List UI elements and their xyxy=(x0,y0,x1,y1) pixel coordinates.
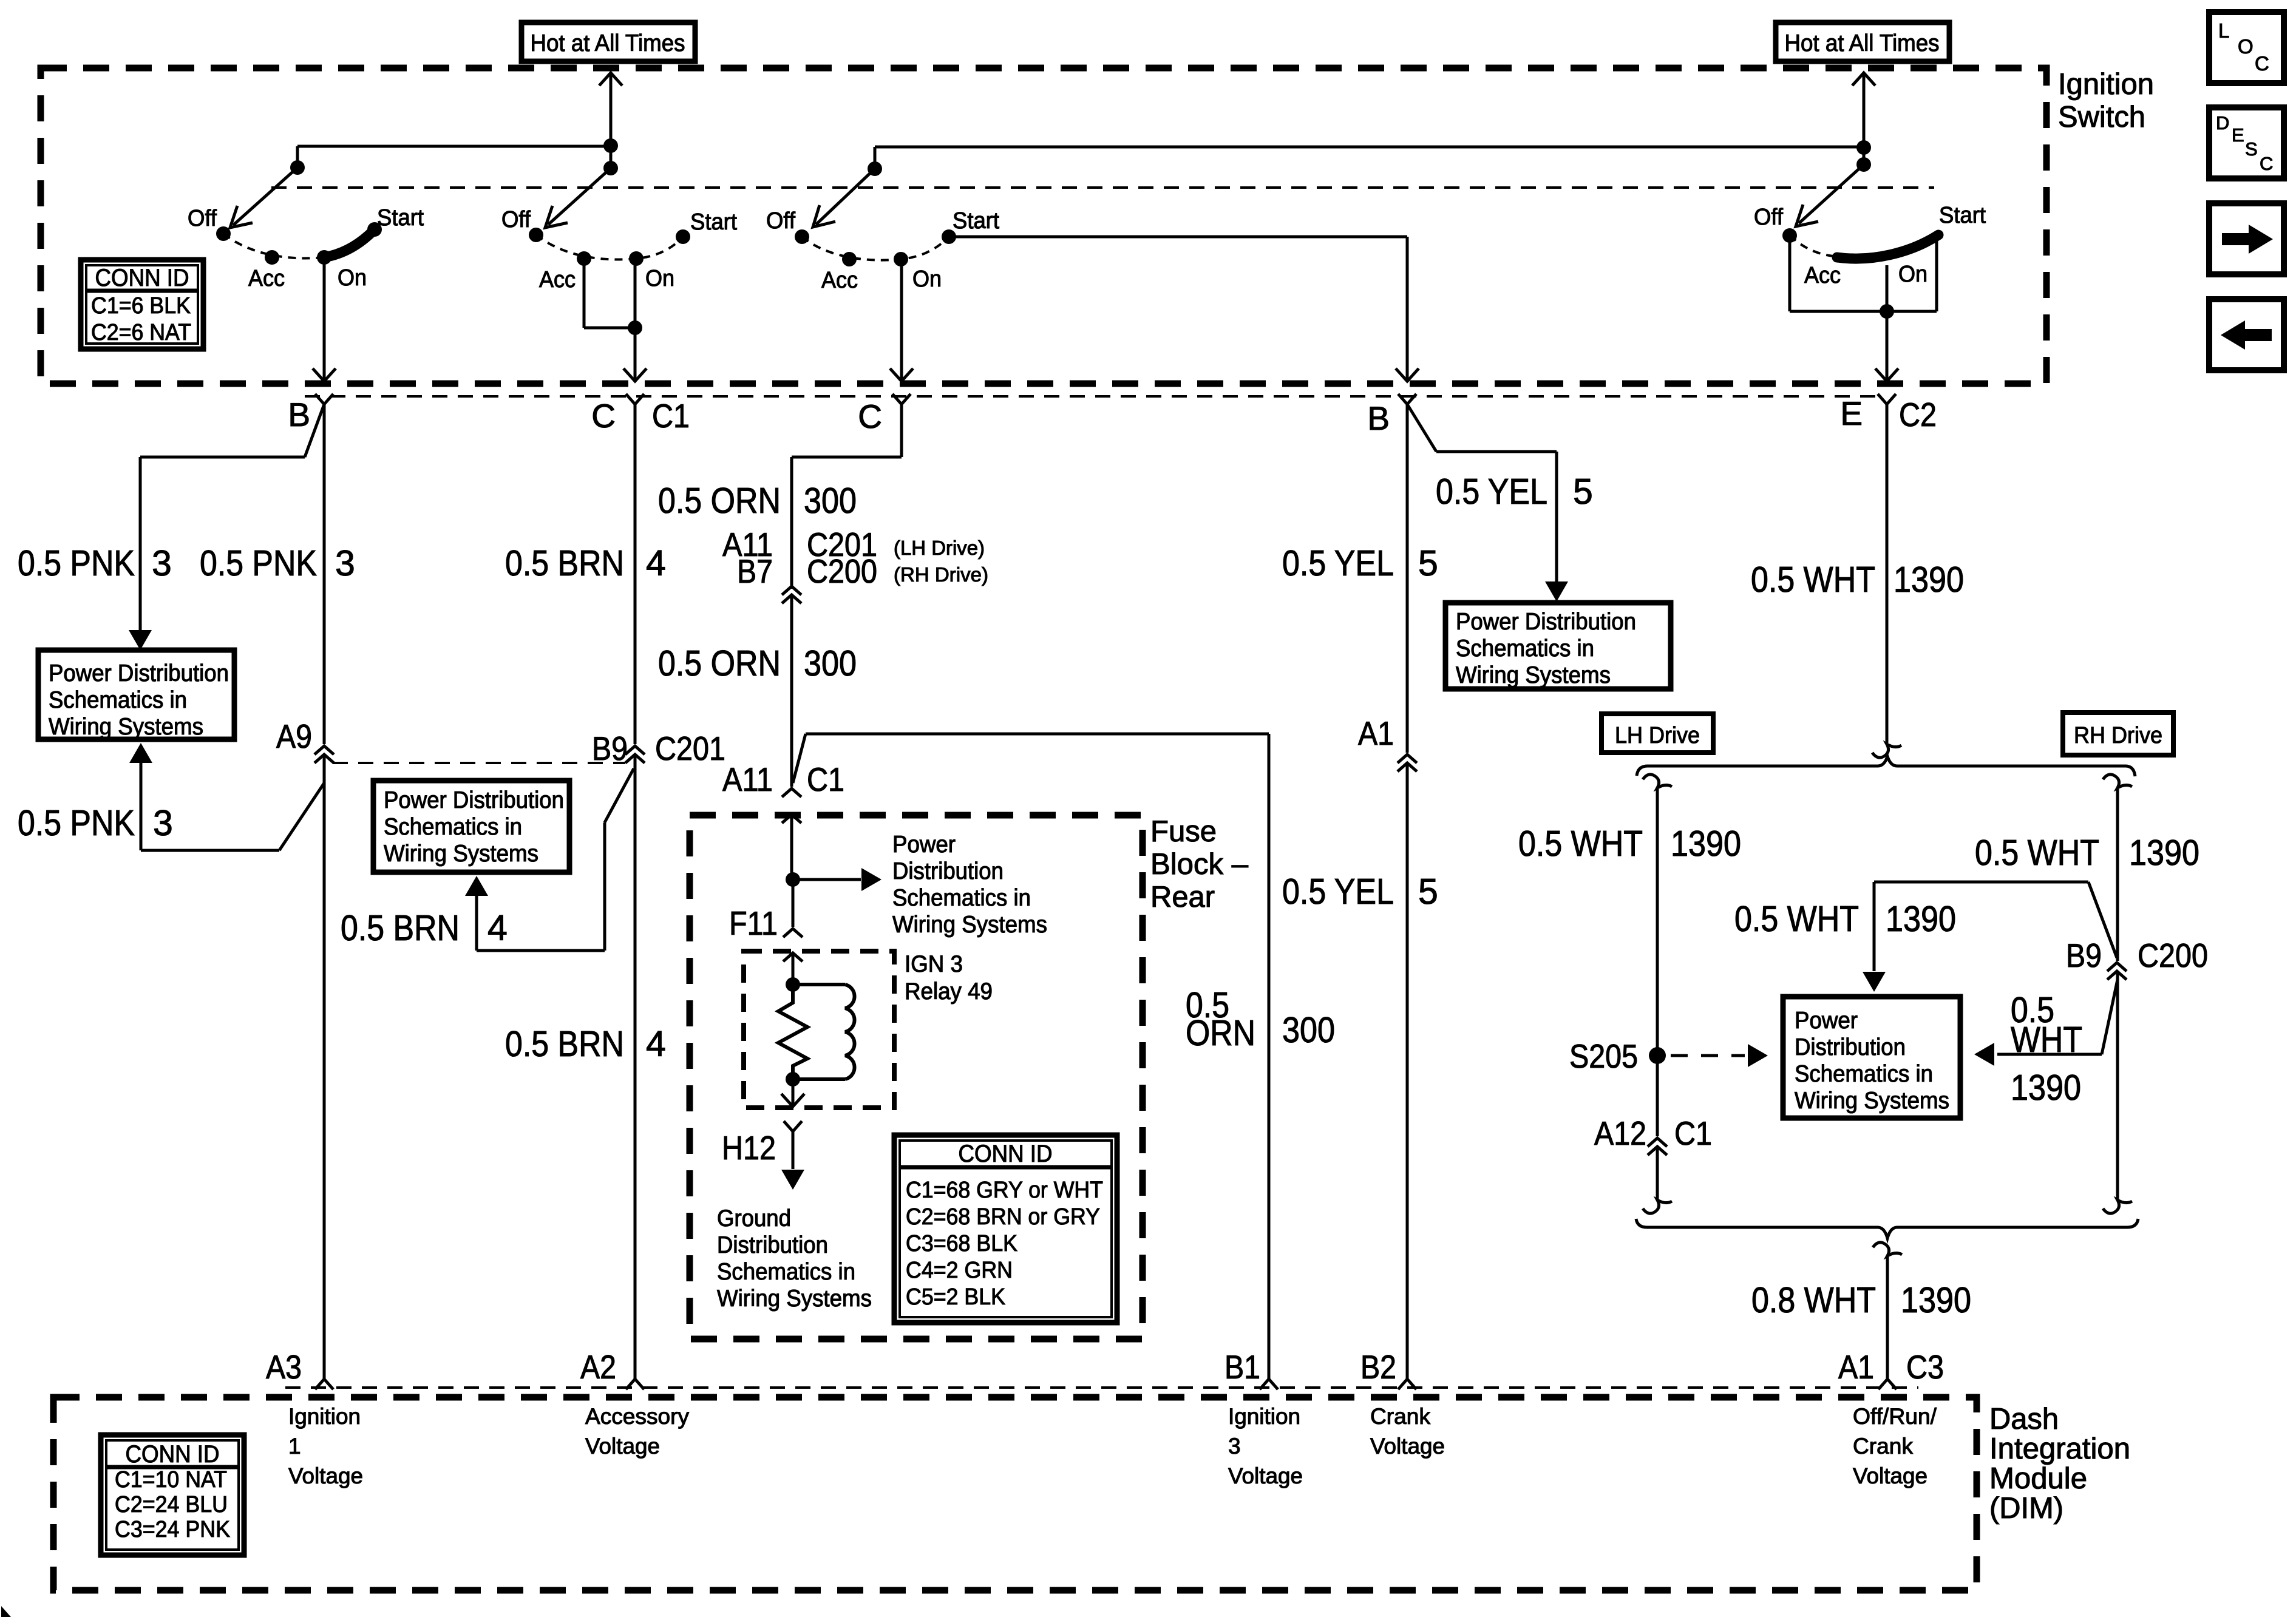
svg-text:300: 300 xyxy=(1282,1010,1335,1050)
svg-text:CONN ID: CONN ID xyxy=(959,1141,1053,1167)
svg-text:Schematics in: Schematics in xyxy=(384,814,522,840)
svg-text:C2=24 BLU: C2=24 BLU xyxy=(115,1492,228,1517)
connector pin B of ignition switch xyxy=(288,394,333,433)
connector F11 xyxy=(729,880,803,942)
switch 2 position arc xyxy=(536,235,683,259)
switch 4 arm with arrow to Off xyxy=(1796,164,1864,226)
svg-text:Off: Off xyxy=(766,208,795,234)
svg-text:Schematics in: Schematics in xyxy=(1795,1061,1933,1087)
svg-text:0.5 PNK: 0.5 PNK xyxy=(200,543,317,583)
branch to ignition3 voltage B1 xyxy=(793,734,1269,1379)
svg-text:0.5 BRN: 0.5 BRN xyxy=(341,908,460,948)
svg-text:Acc: Acc xyxy=(821,268,858,293)
switch 4 contact links xyxy=(1790,235,1937,311)
svg-text:C3: C3 xyxy=(1906,1348,1944,1386)
svg-text:C: C xyxy=(858,398,882,435)
pin A1/C3 function label xyxy=(1853,1404,1937,1488)
svg-text:Distribution: Distribution xyxy=(892,858,1004,884)
wire to A11/C1 xyxy=(790,595,793,787)
connector A12/C1 xyxy=(1594,1114,1712,1155)
svg-text:Dash: Dash xyxy=(1989,1403,2059,1436)
svg-text:Wiring Systems: Wiring Systems xyxy=(892,912,1047,938)
switch 3 position arc xyxy=(802,237,949,260)
svg-text:C200: C200 xyxy=(807,552,877,590)
switch 4 Off contact xyxy=(1782,228,1797,243)
svg-text:ORN: ORN xyxy=(1186,1013,1255,1053)
dash integration module dashed box xyxy=(53,1397,1977,1590)
svg-text:A11: A11 xyxy=(722,761,773,798)
svg-text:C: C xyxy=(2260,153,2273,174)
svg-text:C1: C1 xyxy=(807,761,844,798)
switch 1 output wire B xyxy=(313,257,336,381)
connector pin C/C1 xyxy=(591,394,690,435)
switch 3 Acc contact xyxy=(842,252,857,266)
svg-text:Fuse: Fuse xyxy=(1150,815,1217,848)
RH Drive box xyxy=(2063,713,2173,755)
svg-text:Wiring Systems: Wiring Systems xyxy=(49,714,203,740)
svg-text:Integration: Integration xyxy=(1989,1432,2130,1465)
DIM label xyxy=(1989,1403,2130,1525)
branch arrow to power distribution note xyxy=(793,868,881,891)
svg-text:A3: A3 xyxy=(266,1348,302,1386)
connector C201 dashed line xyxy=(333,762,625,764)
svg-text:Wiring Systems: Wiring Systems xyxy=(1795,1088,1949,1114)
svg-text:3: 3 xyxy=(1228,1434,1241,1459)
Hot at All Times box (right) xyxy=(1776,22,1949,61)
svg-text:C1=6 BLK: C1=6 BLK xyxy=(91,293,191,319)
svg-text:L: L xyxy=(2218,19,2229,42)
hot feed wire 2 xyxy=(1852,73,1875,164)
svg-text:A1: A1 xyxy=(1838,1348,1874,1386)
svg-text:On: On xyxy=(1898,262,1927,287)
wire label 0.5 WHT 1390 (LH) xyxy=(1518,824,1741,864)
svg-text:4: 4 xyxy=(646,543,666,583)
svg-text:CONN ID: CONN ID xyxy=(95,265,189,291)
svg-text:C1: C1 xyxy=(1674,1114,1712,1152)
junction switch2 link xyxy=(628,320,642,335)
svg-text:Power: Power xyxy=(892,832,956,858)
connector A9 xyxy=(276,717,334,763)
RH wire end mark xyxy=(2103,1200,2132,1213)
wire from B down to A9 xyxy=(323,404,326,744)
connector A11 C1 fuse block xyxy=(722,761,844,798)
svg-text:0.5 WHT: 0.5 WHT xyxy=(1518,824,1643,864)
svg-text:WHT: WHT xyxy=(2011,1020,2082,1060)
svg-text:0.5 YEL: 0.5 YEL xyxy=(1436,472,1547,512)
Hot at All Times box (left) xyxy=(521,22,695,61)
wire label 0.5 ORN 300 (upper) xyxy=(658,481,857,521)
junction fuse feed xyxy=(786,872,800,887)
svg-text:0.5 ORN: 0.5 ORN xyxy=(658,481,781,521)
arrow up into box 1 with splice wire xyxy=(129,743,324,850)
svg-text:F11: F11 xyxy=(729,904,778,942)
svg-text:0.5 YEL: 0.5 YEL xyxy=(1282,872,1394,912)
wire into fuse block xyxy=(782,815,801,823)
svg-text:Power Distribution: Power Distribution xyxy=(384,787,564,813)
svg-text:Schematics in: Schematics in xyxy=(1456,636,1594,662)
svg-text:C: C xyxy=(591,397,616,435)
DIM pin A2 xyxy=(580,1348,644,1389)
svg-text:C3=68 BLK: C3=68 BLK xyxy=(906,1231,1017,1256)
svg-text:Off: Off xyxy=(501,207,531,232)
svg-text:4: 4 xyxy=(646,1024,666,1064)
wire label 0.5 YEL 5 (col B upper) xyxy=(1282,543,1438,583)
splice S205 xyxy=(1649,1047,1666,1064)
svg-text:E: E xyxy=(2232,124,2244,146)
svg-text:CONN ID: CONN ID xyxy=(126,1441,220,1468)
pin B1 function label xyxy=(1228,1404,1303,1488)
svg-text:Schematics in: Schematics in xyxy=(49,687,187,713)
svg-text:B7: B7 xyxy=(737,552,773,590)
svg-text:3: 3 xyxy=(335,543,355,583)
ignition switch label xyxy=(2058,68,2154,134)
switch 1 On contact xyxy=(317,250,331,265)
continuation mark above brace xyxy=(1872,744,1901,758)
svg-text:Voltage: Voltage xyxy=(1228,1463,1303,1488)
svg-text:Crank: Crank xyxy=(1370,1404,1430,1429)
relay label IGN 3 Relay 49 xyxy=(905,951,993,1005)
svg-text:1390: 1390 xyxy=(1886,899,1956,939)
svg-text:B9: B9 xyxy=(592,730,628,767)
switch 1 contact arm thick arc On-Start xyxy=(324,229,375,257)
svg-text:A1: A1 xyxy=(1358,714,1394,752)
svg-text:B1: B1 xyxy=(1224,1348,1260,1386)
LH wire end mark xyxy=(1643,1200,1672,1213)
svg-text:Accessory: Accessory xyxy=(585,1404,690,1429)
wire A1 to B2 xyxy=(1406,763,1409,1379)
wire C1 down to B9 xyxy=(634,404,637,744)
wire B to switch 3 xyxy=(875,146,1864,149)
switch 2 arm with arrow to Off xyxy=(545,168,611,228)
svg-text:4: 4 xyxy=(487,908,508,948)
svg-text:RH Drive: RH Drive xyxy=(2074,723,2162,748)
svg-text:Off: Off xyxy=(1754,205,1783,230)
svg-text:(DIM): (DIM) xyxy=(1989,1492,2063,1525)
svg-text:Rear: Rear xyxy=(1150,881,1215,914)
svg-text:C: C xyxy=(2255,52,2269,75)
switch 4 position arc (dashed Off-Acc) xyxy=(1790,236,1833,256)
wire label 0.5 ORN 300 (lower) xyxy=(658,643,857,683)
svg-text:0.5 WHT: 0.5 WHT xyxy=(1975,833,2099,873)
connector B9/C200 xyxy=(2066,937,2208,980)
svg-text:C3=24 PNK: C3=24 PNK xyxy=(115,1517,230,1542)
svg-text:S: S xyxy=(2245,138,2258,160)
wire A to switch 1 xyxy=(297,145,611,148)
svg-text:0.8 WHT: 0.8 WHT xyxy=(1751,1280,1876,1320)
wire C jog to fuse block column xyxy=(792,404,902,589)
switch mechanical link dashed line xyxy=(271,186,1934,189)
IGN 3 relay dashed box xyxy=(744,951,894,1108)
S205 dashed arrow to power distribution xyxy=(1671,1044,1768,1067)
connector pin E/C2 xyxy=(1840,394,1937,433)
ignition switch module dashed box xyxy=(41,68,2046,384)
svg-text:0.5 WHT: 0.5 WHT xyxy=(1751,560,1875,600)
ground arrow xyxy=(781,1131,804,1190)
svg-text:3: 3 xyxy=(152,543,172,583)
CONN ID table fuse block xyxy=(894,1135,1117,1323)
svg-text:C1=10 NAT: C1=10 NAT xyxy=(115,1467,227,1493)
DIM pin A1/C3 xyxy=(1838,1348,1944,1389)
svg-text:C201: C201 xyxy=(655,730,725,767)
svg-text:D: D xyxy=(2216,112,2229,134)
switch 1 position arc xyxy=(223,229,375,258)
switch 3 Start contact xyxy=(942,229,956,244)
pin A3 function label xyxy=(288,1404,363,1488)
connector pin B (crank) xyxy=(1367,394,1416,437)
ground distribution note text xyxy=(717,1205,872,1312)
top distribution brace xyxy=(1637,756,2135,776)
wire E down to brace xyxy=(1886,404,1889,743)
svg-text:S205: S205 xyxy=(1569,1037,1638,1075)
switch 3 On contact xyxy=(894,252,908,266)
switch 2 pivot xyxy=(603,161,618,175)
svg-text:1390: 1390 xyxy=(2129,833,2199,873)
power distribution note text (fuse block) xyxy=(892,832,1047,938)
RH wire start mark xyxy=(2103,775,2132,788)
svg-text:C1=68 GRY or WHT: C1=68 GRY or WHT xyxy=(906,1178,1103,1203)
DIM pin A3 xyxy=(266,1348,333,1389)
svg-text:Wiring Systems: Wiring Systems xyxy=(384,841,538,867)
DIM connector dashed pin line xyxy=(285,1386,1918,1389)
svg-text:Schematics in: Schematics in xyxy=(717,1259,855,1285)
branch wire from B to power distribution xyxy=(129,404,324,650)
svg-text:5: 5 xyxy=(1418,872,1438,912)
svg-text:300: 300 xyxy=(804,643,857,683)
junction switch4 output xyxy=(1880,304,1894,319)
relay top junction xyxy=(786,977,800,992)
switch 4 contact arm thick arc Acc-Start xyxy=(1837,235,1938,259)
pin A2 function label xyxy=(585,1404,690,1459)
svg-text:C200: C200 xyxy=(2138,937,2208,974)
relay coil element xyxy=(793,985,855,1079)
mid 0.5 WHT 1390 arrow into box 4 xyxy=(1863,882,2117,992)
wire label 0.5 PNK 3 (branch) xyxy=(18,543,172,583)
svg-text:Start: Start xyxy=(377,205,424,231)
svg-text:Ignition: Ignition xyxy=(1228,1404,1300,1429)
wire label 0.5 BRN 4 (splice) xyxy=(341,908,508,948)
svg-text:0.5 PNK: 0.5 PNK xyxy=(18,803,135,843)
switch 2 Acc-On link xyxy=(584,259,635,328)
switch 3 pivot xyxy=(868,161,882,176)
svg-text:C2=68 BRN or GRY: C2=68 BRN or GRY xyxy=(906,1204,1100,1230)
wire label 0.5 WHT 1390 (stacked) xyxy=(2011,990,2082,1108)
svg-text:H12: H12 xyxy=(722,1129,776,1167)
relay bottom junction xyxy=(786,1072,800,1086)
svg-text:Start: Start xyxy=(690,209,737,235)
wire A9 to A3 xyxy=(323,754,326,1379)
svg-text:Ignition: Ignition xyxy=(2058,68,2154,101)
wire to A1/C3 xyxy=(1886,1256,1889,1379)
power distribution schematics box 3 xyxy=(1445,603,1671,689)
bottom gathering brace xyxy=(1636,1219,2138,1238)
svg-text:Start: Start xyxy=(1939,203,1986,228)
wire label 0.5 WHT 1390 (col E) xyxy=(1751,560,1964,600)
svg-text:Switch: Switch xyxy=(2058,101,2145,134)
svg-text:C2=6 NAT: C2=6 NAT xyxy=(91,320,191,345)
svg-text:B: B xyxy=(288,396,310,433)
svg-text:Relay 49: Relay 49 xyxy=(905,978,993,1005)
svg-text:C2: C2 xyxy=(1899,396,1937,433)
svg-text:C5=2 BLK: C5=2 BLK xyxy=(906,1284,1005,1310)
fuse block rear dashed box xyxy=(690,815,1143,1339)
svg-text:A9: A9 xyxy=(276,717,312,755)
svg-text:5: 5 xyxy=(1418,543,1438,583)
switch 3 Start wire to column B xyxy=(949,237,1419,381)
svg-text:Voltage: Voltage xyxy=(288,1463,363,1488)
wire label 0.5 YEL 5 (col B lower) xyxy=(1282,872,1438,912)
connector pin C (fuse feed) xyxy=(858,394,911,435)
svg-text:Off/Run/: Off/Run/ xyxy=(1853,1404,1937,1429)
arrow from RH wire into box 4 xyxy=(1974,980,2118,1066)
svg-text:Voltage: Voltage xyxy=(1853,1463,1927,1488)
svg-text:Distribution: Distribution xyxy=(1795,1034,1906,1060)
svg-text:0.5 WHT: 0.5 WHT xyxy=(1734,899,1859,939)
svg-text:0.5 BRN: 0.5 BRN xyxy=(505,543,624,583)
wire label 0.5 PNK 3 (splice) xyxy=(18,803,173,843)
svg-text:Acc: Acc xyxy=(539,267,576,293)
off/run/crank wire start mark xyxy=(1873,1242,1902,1256)
hot feed wire 1 xyxy=(599,73,622,168)
svg-text:Block –: Block – xyxy=(1150,848,1249,881)
switch 1 Start contact xyxy=(367,222,382,237)
switch 1 Acc contact xyxy=(265,250,279,265)
switch 1 arm with arrow to Off xyxy=(230,168,297,228)
svg-text:300: 300 xyxy=(804,481,857,521)
arrow up into box 2 with splice wire xyxy=(465,768,634,951)
switch 2 Acc contact xyxy=(577,251,591,266)
junction hot1/wireA xyxy=(603,138,618,153)
svg-text:1: 1 xyxy=(288,1434,301,1459)
right arrow nav box xyxy=(2209,203,2284,274)
RH drive wire lower xyxy=(2116,971,2119,1200)
switch 4 output wire xyxy=(1875,311,1898,381)
relay output down arrow xyxy=(781,1079,804,1107)
switch 3 Off contact xyxy=(795,229,809,244)
svg-text:1390: 1390 xyxy=(1671,824,1741,864)
wire label 0.5 ORN 300 (B1 column) xyxy=(1186,985,1335,1053)
svg-text:Acc: Acc xyxy=(248,266,285,291)
svg-text:Ignition: Ignition xyxy=(288,1404,361,1429)
svg-text:Ground: Ground xyxy=(717,1205,791,1232)
wire label 0.5 WHT 1390 (RH) xyxy=(1975,833,2199,873)
svg-text:3: 3 xyxy=(153,803,173,843)
svg-text:IGN 3: IGN 3 xyxy=(905,951,963,977)
svg-text:(LH Drive): (LH Drive) xyxy=(894,537,985,559)
power distribution schematics box 2 xyxy=(373,781,569,872)
svg-text:A2: A2 xyxy=(580,1348,616,1386)
svg-text:Voltage: Voltage xyxy=(585,1434,660,1459)
connector C1/C2 dashed line below ignition switch xyxy=(305,395,1878,398)
switch 1 Off contact xyxy=(216,226,231,241)
CONN ID table DIM xyxy=(101,1435,244,1555)
switch 2 Off contact xyxy=(529,228,543,242)
branch from B to power distribution note xyxy=(1407,404,1568,602)
svg-text:B2: B2 xyxy=(1360,1348,1396,1386)
svg-text:On: On xyxy=(338,265,367,291)
switch 1 pivot xyxy=(290,160,305,175)
DIM pin B2 xyxy=(1360,1348,1416,1389)
svg-text:On: On xyxy=(645,266,674,291)
svg-text:Hot at All Times: Hot at All Times xyxy=(531,30,685,56)
svg-text:Hot at All Times: Hot at All Times xyxy=(1785,30,1940,56)
svg-text:Crank: Crank xyxy=(1853,1434,1913,1459)
svg-text:B: B xyxy=(1367,399,1390,437)
wire label 0.5 WHT 1390 (mid) xyxy=(1734,899,1956,939)
RH drive wire upper xyxy=(2116,789,2119,961)
svg-text:Off: Off xyxy=(188,206,217,231)
svg-text:(RH Drive): (RH Drive) xyxy=(894,563,988,586)
svg-text:0.5 PNK: 0.5 PNK xyxy=(18,543,135,583)
svg-text:1390: 1390 xyxy=(1894,560,1964,600)
LOC nav box xyxy=(2209,12,2284,83)
svg-text:A12: A12 xyxy=(1594,1114,1646,1152)
svg-text:0.5 BRN: 0.5 BRN xyxy=(505,1024,624,1064)
switch 2 On contact xyxy=(629,251,644,266)
wire label 0.5 BRN 4 (lower) xyxy=(505,1024,666,1064)
relay resistor element xyxy=(778,985,807,1078)
DIM pin B1 xyxy=(1224,1348,1278,1389)
svg-text:Distribution: Distribution xyxy=(717,1232,828,1258)
wire B down to A1 xyxy=(1406,404,1409,753)
svg-text:O: O xyxy=(2238,35,2254,58)
connector H12 xyxy=(722,1121,802,1167)
CONN ID table ignition switch xyxy=(81,260,203,349)
svg-text:C1: C1 xyxy=(652,397,690,435)
wire label 0.8 WHT 1390 xyxy=(1751,1280,1971,1320)
wire label 0.5 YEL 5 (branch) xyxy=(1436,472,1593,512)
left arrow nav box xyxy=(2209,299,2284,370)
svg-text:E: E xyxy=(1840,395,1863,432)
switch 2 output wire C/C1 xyxy=(623,259,647,381)
svg-text:Voltage: Voltage xyxy=(1370,1434,1445,1459)
switch 2 Start contact xyxy=(676,229,690,244)
svg-text:Start: Start xyxy=(953,208,999,234)
svg-text:Wiring Systems: Wiring Systems xyxy=(1456,662,1611,688)
svg-text:Power Distribution: Power Distribution xyxy=(1456,609,1636,635)
svg-text:Power: Power xyxy=(1795,1008,1858,1034)
power distribution schematics box 1 xyxy=(38,650,234,740)
svg-text:C4=2 GRN: C4=2 GRN xyxy=(906,1258,1013,1283)
svg-text:1390: 1390 xyxy=(1901,1280,1971,1320)
svg-text:Module: Module xyxy=(1989,1462,2087,1495)
LH Drive box xyxy=(1601,714,1713,753)
svg-text:Schematics in: Schematics in xyxy=(892,885,1031,911)
switch 3 On output wire xyxy=(890,259,913,381)
svg-text:5: 5 xyxy=(1573,472,1593,512)
DESC nav box xyxy=(2209,107,2284,178)
connector A1 xyxy=(1358,714,1417,771)
connector B9 / C201 xyxy=(592,730,725,767)
svg-text:0.5 YEL: 0.5 YEL xyxy=(1282,543,1394,583)
svg-text:0.5 ORN: 0.5 ORN xyxy=(658,643,781,683)
switch 3 arm with arrow to Off xyxy=(813,169,875,227)
page corner mark xyxy=(1,1606,11,1617)
svg-text:Acc: Acc xyxy=(1804,263,1841,288)
LH drive wire xyxy=(1656,789,1659,1136)
switch 4 pivot xyxy=(1856,157,1871,172)
fuse block label xyxy=(1150,815,1249,914)
pin B2 function label xyxy=(1370,1404,1445,1459)
wire B9 to A2 xyxy=(634,754,637,1379)
svg-text:On: On xyxy=(912,266,942,292)
svg-text:Wiring Systems: Wiring Systems xyxy=(717,1286,872,1312)
svg-text:1390: 1390 xyxy=(2011,1068,2081,1108)
svg-text:Power Distribution: Power Distribution xyxy=(49,660,229,686)
wire label 0.5 BRN 4 (col C1) xyxy=(505,543,666,583)
LH wire start mark xyxy=(1643,775,1672,788)
connector A11/B7 C201/C200 xyxy=(722,526,988,603)
power distribution schematics box 4 xyxy=(1783,997,1960,1118)
